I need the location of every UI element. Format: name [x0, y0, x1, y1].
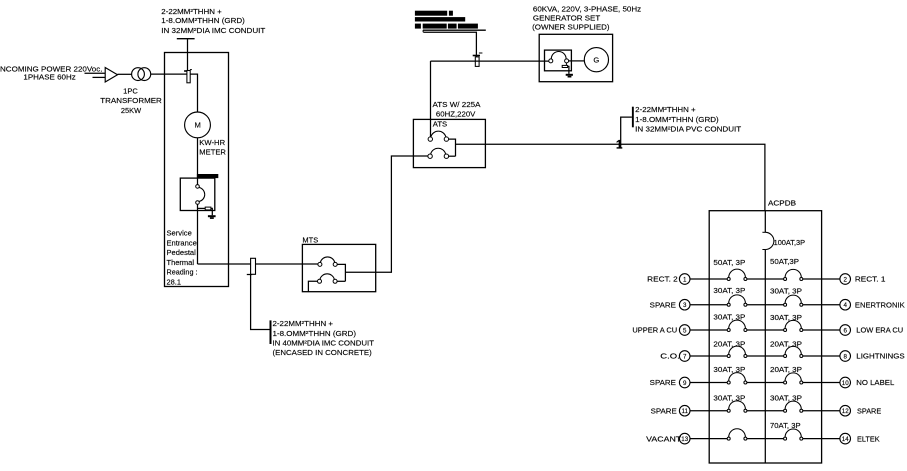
svg-text:2: 2: [843, 276, 847, 283]
svg-text:30AT, 3P: 30AT, 3P: [770, 287, 802, 296]
svg-text:1: 1: [616, 137, 623, 151]
busbar thick pad: [197, 174, 218, 178]
ATS rating label: [433, 100, 481, 118]
svg-text:UPPER A CU: UPPER A CU: [632, 326, 677, 335]
conduit marker generator feed: [473, 53, 483, 66]
svg-text:2-22MM²THHN +: 2-22MM²THHN +: [161, 7, 222, 16]
svg-text:30AT, 3P: 30AT, 3P: [713, 313, 745, 322]
circuit number 9: [679, 377, 690, 388]
svg-text:LIGHTNINGS: LIGHTNINGS: [856, 352, 905, 361]
feeder label to MTS: [273, 319, 375, 357]
svg-text:TRANSFORMER: TRANSFORMER: [100, 96, 162, 105]
wire generator junction down to ATS: [430, 61, 432, 137]
svg-text:LOW ERA CU: LOW ERA CU: [856, 326, 903, 335]
svg-text:C.O.: C.O.: [660, 352, 679, 361]
breaker circuit 6 30AT, 3P: [784, 320, 803, 331]
svg-text:ATS: ATS: [433, 120, 448, 129]
circuit row 3/4 wire: [690, 304, 840, 306]
generator set label: [532, 5, 641, 32]
circuit row 1/2 wire: [690, 278, 840, 280]
transformer label: [100, 87, 162, 115]
redacted title bars: [415, 11, 478, 29]
svg-text:13: 13: [681, 436, 688, 443]
breaker circuit 7 20AT, 3P: [727, 346, 747, 357]
svg-text:Service: Service: [167, 229, 192, 238]
generator enclosure: [539, 34, 612, 81]
breaker circuit 4 30AT, 3P: [784, 295, 803, 306]
svg-text:ELTEK: ELTEK: [857, 434, 880, 443]
ATS enclosure: [413, 119, 485, 167]
svg-text:ATS W/ 225A: ATS W/ 225A: [433, 100, 481, 109]
arrow incoming feed: [105, 68, 117, 83]
circuit number 13: [679, 433, 690, 444]
conduit marker feeder to MTS: [247, 258, 270, 329]
breaker circuit 5 30AT, 3P: [727, 320, 747, 331]
breaker circuit 8 20AT, 3P: [784, 346, 803, 357]
cable tag bar panel feeder: [632, 107, 634, 128]
wire MTS output riser to ATS: [345, 156, 428, 272]
svg-text:20AT, 3P: 20AT, 3P: [770, 365, 802, 374]
svg-text:20AT, 3P: 20AT, 3P: [770, 339, 802, 348]
svg-text:Thermal: Thermal: [167, 258, 195, 267]
service conduit riser with cap: [177, 39, 195, 83]
svg-text:9: 9: [683, 380, 687, 387]
svg-text:METER: METER: [199, 148, 226, 157]
wire meter to main breaker: [197, 138, 199, 178]
circuit number 10: [840, 377, 851, 388]
svg-text:RECT. 2: RECT. 2: [647, 275, 678, 284]
breaker circuit 10 20AT, 3P: [784, 373, 803, 384]
circuit number 6: [840, 325, 851, 336]
wire service drop double line: [85, 73, 106, 77]
svg-text:30AT, 3P: 30AT, 3P: [770, 313, 802, 322]
svg-text:IN 32MM²DIA IMC CONDUIT: IN 32MM²DIA IMC CONDUIT: [161, 26, 266, 35]
svg-text:(ENCASED IN CONCRETE): (ENCASED IN CONCRETE): [273, 348, 372, 357]
svg-text:30AT, 3P: 30AT, 3P: [770, 394, 802, 403]
transformer 1PC 25KW: [132, 68, 151, 81]
wire ATS output to panel: [456, 144, 765, 210]
svg-text:Reading :: Reading :: [167, 268, 198, 277]
circuit number 14: [840, 433, 851, 444]
circuit row 9/10 wire: [690, 382, 840, 384]
MTS enclosure: [302, 244, 375, 291]
svg-text:1PHASE 60Hz: 1PHASE 60Hz: [23, 72, 76, 81]
ground branch service entrance: [198, 207, 213, 215]
main breaker enclosure: [180, 178, 215, 210]
breaker circuit 9 30AT, 3P: [727, 373, 747, 384]
generator G machine: [584, 48, 608, 72]
generator breaker enclosure: [545, 50, 572, 71]
svg-text:20AT, 3P: 20AT, 3P: [713, 339, 745, 348]
wire arrow to transformer: [118, 73, 132, 75]
svg-text:30AT, 3P: 30AT, 3P: [713, 365, 745, 374]
svg-text:70AT, 3P: 70AT, 3P: [770, 421, 801, 430]
svg-text:VACANT: VACANT: [646, 434, 682, 443]
circuit row 7/8 wire: [690, 355, 840, 357]
svg-text:SPARE: SPARE: [650, 300, 676, 309]
svg-text:Pedestal: Pedestal: [167, 248, 197, 257]
svg-text:SPARE: SPARE: [650, 378, 676, 387]
breaker circuit 14 70AT, 3P: [784, 429, 803, 440]
circuit number 5: [679, 325, 690, 336]
circuit number 12: [840, 405, 851, 416]
svg-text:1PC: 1PC: [123, 87, 138, 96]
svg-text:30AT, 3P: 30AT, 3P: [713, 394, 745, 403]
svg-text:1: 1: [683, 276, 687, 283]
meter label: [199, 138, 226, 157]
cable tag bar: [270, 320, 272, 344]
svg-text:NO LABEL: NO LABEL: [856, 378, 894, 387]
svg-text:ENERTRONIK: ENERTRONIK: [855, 300, 905, 309]
svg-text:2-22MM²THHN +: 2-22MM²THHN +: [635, 105, 696, 114]
svg-text:7: 7: [683, 353, 687, 360]
svg-text:2-22MM²THHN +: 2-22MM²THHN +: [273, 319, 334, 328]
svg-text:5: 5: [683, 327, 687, 334]
circuit row 11/12 wire: [690, 410, 840, 412]
circuit number 1: [679, 274, 690, 285]
breaker circuit 13 (vacant): [727, 429, 747, 440]
svg-text:GENERATOR SET: GENERATOR SET: [533, 14, 601, 23]
wire transformer to meter: [151, 74, 198, 112]
svg-text:50AT, 3P: 50AT, 3P: [713, 258, 745, 267]
svg-text:G: G: [593, 56, 599, 65]
circuit number 4: [840, 299, 851, 310]
breaker circuit 12 30AT, 3P: [784, 401, 803, 412]
generator breaker CB: [549, 52, 585, 63]
svg-text:1-8.OMM²THHN (GRD): 1-8.OMM²THHN (GRD): [635, 115, 719, 124]
svg-text:1-8.OMM²THHN (GRD): 1-8.OMM²THHN (GRD): [273, 329, 357, 338]
svg-text:MTS: MTS: [302, 236, 318, 245]
meter M kilowatt-hour: [185, 112, 211, 138]
svg-text:SPARE: SPARE: [651, 406, 677, 415]
svg-text:10: 10: [842, 380, 849, 387]
circuit number 2: [840, 274, 851, 285]
panel bus center line: [764, 211, 766, 463]
breaker circuit 1 50AT, 3P: [727, 269, 747, 280]
ground symbol generator: [566, 74, 573, 76]
svg-text:12: 12: [842, 408, 849, 415]
service conduit riser label: [161, 7, 266, 35]
svg-text:ACPDB: ACPDB: [768, 199, 796, 208]
wire generator to ATS junction: [431, 60, 549, 62]
MTS emergency side switch: [308, 274, 345, 292]
service entrance pedestal enclosure: [165, 53, 229, 287]
generator ground branch: [562, 63, 569, 74]
breaker circuit 3 30AT, 3P: [727, 295, 747, 306]
circuit number 3: [679, 299, 690, 310]
service entrance pedestal text: [167, 229, 198, 287]
svg-text:60KVA, 220V, 3-PHASE, 50Hz: 60KVA, 220V, 3-PHASE, 50Hz: [533, 5, 642, 14]
svg-text:28.1: 28.1: [167, 277, 182, 286]
circuit number 8: [840, 351, 851, 362]
ATS normal switch: [428, 131, 455, 156]
circuit number 7: [679, 351, 690, 362]
circuit row 5/6 wire: [690, 329, 840, 331]
ground symbol service entrance: [208, 215, 216, 217]
node incoming power utility label: [0, 65, 103, 82]
panelboard ACPDB enclosure: [709, 211, 821, 463]
svg-text:RECT. 1: RECT. 1: [855, 275, 886, 284]
svg-text:4: 4: [843, 302, 847, 309]
svg-text:Entrance: Entrance: [167, 238, 197, 247]
underline bar: [423, 29, 486, 31]
svg-text:25KW: 25KW: [121, 106, 141, 115]
svg-text:11: 11: [681, 408, 688, 415]
svg-text:50AT,3P: 50AT,3P: [770, 257, 799, 266]
svg-text:M: M: [195, 121, 201, 130]
svg-text:1-8.OMM²THHN (GRD): 1-8.OMM²THHN (GRD): [161, 16, 245, 25]
ATS emergency switch: [428, 148, 456, 158]
svg-text:KW-HR: KW-HR: [199, 138, 225, 147]
circuit number 11: [679, 405, 690, 416]
svg-text:SPARE: SPARE: [857, 406, 881, 415]
svg-text:(OWNER SUPPLIED): (OWNER SUPPLIED): [532, 22, 610, 31]
svg-text:IN 32MM²DIA PVC CONDUIT: IN 32MM²DIA PVC CONDUIT: [635, 125, 742, 134]
svg-text:60HZ,220V: 60HZ,220V: [436, 109, 476, 118]
svg-text:3: 3: [683, 302, 687, 309]
svg-text:14: 14: [842, 436, 849, 443]
svg-text:IN 40MM²DIA IMC CONDUIT: IN 40MM²DIA IMC CONDUIT: [273, 339, 375, 348]
circuit row 13/14 wire: [690, 438, 840, 440]
feeder cable tag 1: [616, 117, 632, 151]
svg-text:30AT, 3P: 30AT, 3P: [713, 286, 745, 295]
svg-text:6: 6: [843, 327, 847, 334]
wire top line to generator fuse: [423, 30, 476, 66]
breaker CB service entrance: [196, 178, 205, 264]
svg-text:100AT,3P: 100AT,3P: [774, 238, 806, 247]
main breaker 100AT 3P: [762, 232, 773, 249]
breaker circuit 2 50AT,3P: [784, 269, 803, 280]
feeder label to ACPDB: [635, 105, 742, 134]
wire service entrance to MTS: [198, 263, 319, 265]
svg-text:8: 8: [843, 353, 847, 360]
MTS normal side switch: [318, 257, 346, 281]
breaker circuit 11 30AT, 3P: [727, 401, 747, 412]
